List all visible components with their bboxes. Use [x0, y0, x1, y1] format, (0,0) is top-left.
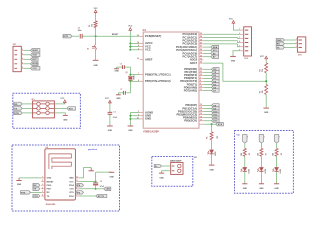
svg-text:PC6(RESET): PC6(RESET) — [145, 34, 161, 38]
svg-text:GND: GND — [274, 188, 279, 190]
svg-text:2: 2 — [22, 53, 23, 55]
svg-text:VCC: VCC — [32, 68, 37, 70]
svg-text:PB6(XTAL1/TOSC1): PB6(XTAL1/TOSC1) — [145, 72, 171, 76]
svg-text:PB5(SCK): PB5(SCK) — [184, 119, 197, 123]
svg-text:10: 10 — [200, 86, 202, 88]
svg-text:5: 5 — [22, 67, 23, 69]
svg-text:PIO6: PIO6 — [47, 185, 53, 187]
svg-text:Q1: Q1 — [125, 72, 127, 74]
svg-text:PB7(XTAL2/TOSC2): PB7(XTAL2/TOSC2) — [145, 79, 171, 83]
svg-text:10k: 10k — [262, 69, 264, 72]
svg-text:GND: GND — [17, 184, 22, 186]
svg-text:10k: 10k — [262, 90, 264, 93]
svg-text:11: 11 — [200, 89, 202, 91]
svg-text:RTS: RTS — [21, 192, 26, 194]
svg-text:4.7uF: 4.7uF — [100, 185, 104, 188]
svg-text:3: 3 — [296, 46, 297, 48]
svg-text:GND: GND — [114, 71, 119, 73]
svg-text:CTS: CTS — [33, 196, 38, 198]
svg-text:19: 19 — [200, 59, 202, 61]
svg-text:1: 1 — [264, 137, 265, 139]
svg-text:15: 15 — [200, 113, 202, 115]
svg-text:VCC: VCC — [105, 98, 110, 100]
svg-text:PIO4: PIO4 — [69, 184, 75, 187]
svg-text:31: 31 — [200, 71, 202, 73]
svg-text:22: 22 — [200, 55, 202, 57]
svg-text:25: 25 — [200, 39, 202, 41]
svg-text:14: 14 — [200, 109, 202, 112]
svg-text:JP1: JP1 — [31, 99, 34, 101]
svg-text:4: 4 — [22, 61, 23, 64]
svg-text:1: 1 — [200, 77, 201, 79]
svg-text:LED3: LED3 — [248, 169, 250, 173]
svg-text:R8: R8 — [281, 153, 283, 155]
svg-text:GND: GND — [128, 130, 133, 132]
svg-text:RESET: RESET — [47, 181, 55, 183]
svg-text:330: 330 — [258, 153, 260, 156]
svg-text:16MHz: 16MHz — [134, 75, 136, 80]
svg-text:VCC: VCC — [69, 181, 74, 183]
svg-text:GND: GND — [231, 61, 236, 63]
svg-text:SV2: SV2 — [244, 58, 248, 60]
svg-text:PD7(AIN1): PD7(AIN1) — [184, 88, 198, 92]
svg-text:32: 32 — [200, 74, 202, 76]
svg-text:leds: leds — [237, 134, 240, 136]
svg-text:330: 330 — [241, 153, 243, 156]
svg-text:GND: GND — [93, 65, 98, 67]
svg-text:VCC: VCC — [229, 18, 234, 20]
svg-text:ADC7: ADC7 — [190, 61, 198, 65]
svg-text:30: 30 — [200, 68, 202, 70]
svg-text:AREF: AREF — [145, 57, 153, 61]
svg-text:GND: GND — [69, 178, 74, 180]
svg-text:ATMEGA328P: ATMEGA328P — [143, 131, 159, 134]
svg-text:RN42-I/RM: RN42-I/RM — [46, 203, 56, 206]
svg-text:gnusb-st: gnusb-st — [88, 148, 98, 151]
svg-text:23: 23 — [200, 33, 202, 35]
svg-text:1: 1 — [279, 137, 280, 139]
svg-text:28: 28 — [200, 49, 202, 51]
svg-text:GND: GND — [277, 40, 282, 42]
svg-text:0.1uF: 0.1uF — [113, 117, 117, 119]
svg-text:GND: GND — [47, 178, 52, 180]
svg-text:2: 2 — [296, 42, 297, 44]
svg-text:DTR: DTR — [14, 113, 19, 115]
svg-text:R7: R7 — [266, 153, 268, 155]
svg-text:C7: C7 — [120, 89, 122, 91]
svg-text:RXI: RXI — [69, 108, 73, 110]
svg-text:9: 9 — [200, 83, 201, 85]
svg-text:RTS: RTS — [70, 192, 75, 194]
svg-text:27: 27 — [200, 46, 202, 48]
svg-text:1: 1 — [247, 137, 248, 139]
svg-text:GND: GND — [264, 112, 269, 114]
svg-text:13: 13 — [200, 107, 202, 109]
svg-text:3: 3 — [22, 58, 23, 60]
svg-text:BT-TX: BT-TX — [98, 196, 105, 198]
svg-text:20: 20 — [137, 58, 139, 60]
svg-text:330: 330 — [273, 153, 275, 156]
svg-text:SCK: SCK — [218, 124, 223, 126]
svg-text:LED4: LED4 — [264, 169, 267, 173]
svg-text:VCC: VCC — [128, 26, 133, 28]
svg-text:10k: 10k — [91, 24, 93, 27]
svg-text:RESET: RESET — [112, 34, 119, 36]
svg-text:GND: GND — [116, 98, 121, 100]
svg-text:RST: RST — [32, 59, 37, 61]
svg-text:PIO2: PIO2 — [69, 196, 75, 198]
svg-text:GND: GND — [159, 178, 164, 180]
svg-text:LED1: LED1 — [215, 152, 217, 156]
svg-text:1: 1 — [22, 49, 23, 51]
svg-text:GND: GND — [109, 176, 114, 178]
svg-text:17: 17 — [200, 119, 202, 121]
svg-text:GND: GND — [108, 130, 113, 132]
svg-text:DTR: DTR — [64, 36, 69, 38]
svg-text:26: 26 — [200, 43, 202, 45]
svg-text:1: 1 — [296, 39, 297, 41]
svg-text:RX: RX — [277, 44, 281, 46]
svg-text:100n: 100n — [78, 30, 82, 32]
svg-text:PIO7: PIO7 — [47, 189, 53, 191]
svg-text:GND: GND — [259, 188, 264, 190]
svg-text:VCC: VCC — [145, 48, 151, 52]
svg-text:12: 12 — [76, 177, 78, 179]
svg-text:MISO: MISO — [32, 50, 38, 52]
svg-text:24: 24 — [200, 35, 202, 38]
svg-text:VCC: VCC — [61, 98, 65, 100]
svg-text:LED5: LED5 — [280, 169, 282, 173]
svg-text:GND: GND — [145, 117, 151, 121]
svg-text:R4: R4 — [259, 69, 262, 71]
svg-text:C9: C9 — [100, 181, 102, 183]
svg-text:VCC: VCC — [260, 56, 265, 58]
svg-text:GND: GND — [63, 120, 68, 122]
svg-text:MOSI: MOSI — [32, 64, 38, 66]
svg-text:19: 19 — [200, 52, 202, 54]
svg-text:R5: R5 — [206, 137, 208, 139]
svg-text:C3: C3 — [113, 111, 115, 113]
svg-text:2: 2 — [200, 80, 201, 82]
svg-text:RX: RX — [14, 104, 18, 106]
svg-text:GND: GND — [243, 188, 248, 190]
svg-text:U2: U2 — [46, 147, 48, 149]
svg-text:22: 22 — [200, 62, 202, 64]
svg-text:C6: C6 — [120, 64, 122, 66]
svg-text:LED: LED — [106, 189, 111, 191]
svg-text:SCK: SCK — [32, 55, 37, 57]
svg-text:U$5: U$5 — [194, 157, 197, 159]
svg-text:16: 16 — [200, 116, 202, 118]
svg-text:R6: R6 — [249, 153, 251, 155]
svg-text:330: 330 — [217, 136, 219, 139]
svg-text:11: 11 — [76, 180, 78, 182]
svg-text:VCC: VCC — [94, 8, 99, 10]
svg-text:CTS: CTS — [70, 189, 75, 191]
svg-text:GND: GND — [209, 169, 214, 171]
svg-text:SV3: SV3 — [298, 54, 302, 56]
svg-text:12: 12 — [200, 104, 202, 106]
svg-text:S1: S1 — [87, 48, 89, 50]
